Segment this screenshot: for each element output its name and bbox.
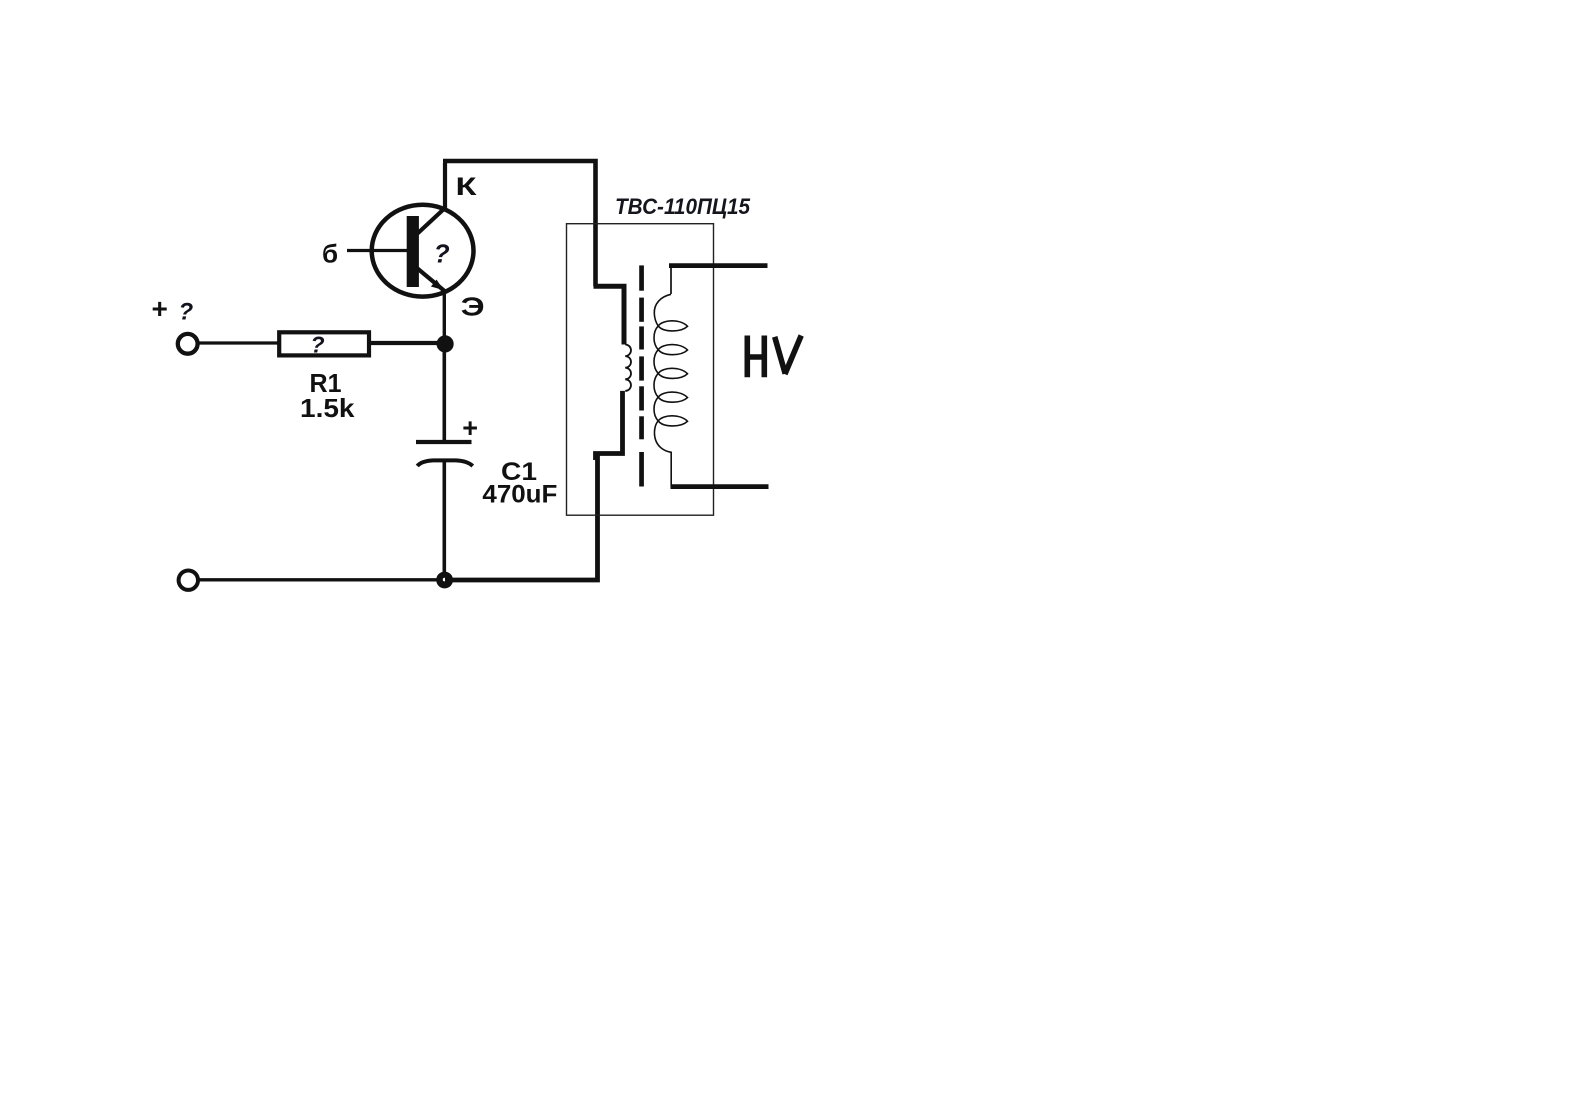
capacitor C1 bottom plate xyxy=(417,460,472,466)
transformer T1 primary winding scallops xyxy=(625,345,631,391)
node: ground junction dot xyxy=(436,572,453,589)
wire: bottom rail left (terminal X2 to junction) xyxy=(198,578,445,581)
transformer T1 secondary wire down from top lead xyxy=(670,265,672,294)
transistor Q1 base bar xyxy=(407,216,419,287)
capacitor C1 top plate xyxy=(416,440,472,444)
svg-text:К: К xyxy=(456,173,478,201)
transistor Q1 collector lead xyxy=(418,208,446,234)
svg-text:?: ? xyxy=(434,238,450,268)
wire: capacitor C1 down to ground junction xyxy=(442,462,446,580)
wire: emitter down to junction xyxy=(443,290,446,344)
svg-text:+: + xyxy=(152,293,168,324)
wire: junction down to capacitor C1 xyxy=(442,344,446,441)
svg-text:470uF: 470uF xyxy=(482,481,557,509)
transistor Q1 emitter lead xyxy=(418,269,445,292)
svg-text:б: б xyxy=(322,239,338,269)
transformer T1 secondary bottom lead xyxy=(671,484,769,489)
transformer T1 secondary top lead xyxy=(669,263,768,268)
transformer T1 core (dashed) xyxy=(639,265,644,486)
transformer T1 box xyxy=(567,224,714,516)
svg-text:?: ? xyxy=(311,332,325,358)
wire: bottom rail right (junction to transformer primary) xyxy=(445,455,598,580)
svg-text:Э: Э xyxy=(461,291,485,321)
svg-text:1.5k: 1.5k xyxy=(300,393,355,423)
transformer T1 primary lead upper xyxy=(594,286,625,344)
svg-text:+: + xyxy=(462,413,478,443)
wire: terminal X1 to resistor R1 xyxy=(198,341,279,344)
transformer T1 secondary winding loops xyxy=(654,294,688,487)
wire: top horizontal (collector to transformer primary) xyxy=(443,161,596,286)
svg-text:ТВС-110ПЦ15: ТВС-110ПЦ15 xyxy=(615,194,751,219)
emitter arrowhead xyxy=(431,280,444,291)
resistor R1 body xyxy=(279,332,369,355)
base lead wire xyxy=(347,249,407,252)
label HV xyxy=(747,336,801,378)
wire: collector up xyxy=(443,163,447,209)
input terminal X1 (top, +) xyxy=(178,334,198,354)
transformer T1 primary lead lower xyxy=(596,391,623,460)
node: emitter junction dot xyxy=(437,335,454,352)
svg-text:?: ? xyxy=(179,299,194,326)
input terminal X2 (bottom) xyxy=(179,571,198,590)
wire: resistor R1 to emitter node xyxy=(371,341,448,345)
transistor Q1 circle xyxy=(372,205,474,297)
